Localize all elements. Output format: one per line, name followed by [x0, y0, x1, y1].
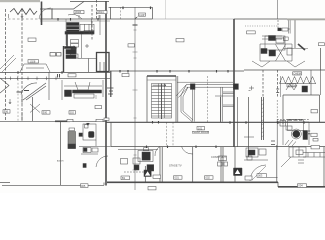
- svg-text:300: 300: [43, 111, 48, 115]
- svg-text:CHEM: CHEM: [293, 72, 301, 76]
- svg-text:CONST HUT: CONST HUT: [211, 155, 226, 159]
- svg-text:STAGE TV: STAGE TV: [169, 164, 182, 168]
- svg-text:CUP: CUP: [139, 13, 145, 17]
- svg-text:306: 306: [4, 110, 9, 114]
- svg-text:CHEM: CHEM: [288, 83, 296, 87]
- svg-text:004: 004: [298, 184, 303, 188]
- svg-text:005: 005: [81, 184, 86, 188]
- svg-text:AS/370: AS/370: [57, 160, 64, 163]
- svg-text:1028: 1028: [30, 60, 36, 64]
- svg-text:002: 002: [206, 176, 211, 180]
- svg-text:301B: 301B: [75, 10, 81, 14]
- svg-text:301C: 301C: [98, 10, 104, 14]
- svg-text:202: 202: [70, 111, 75, 115]
- svg-text:003: 003: [258, 174, 263, 178]
- svg-text:PLANT ROOM: PLANT ROOM: [192, 130, 209, 134]
- svg-text:101: 101: [198, 126, 203, 130]
- svg-text:B1: B1: [122, 176, 126, 180]
- svg-text:001: 001: [175, 176, 180, 180]
